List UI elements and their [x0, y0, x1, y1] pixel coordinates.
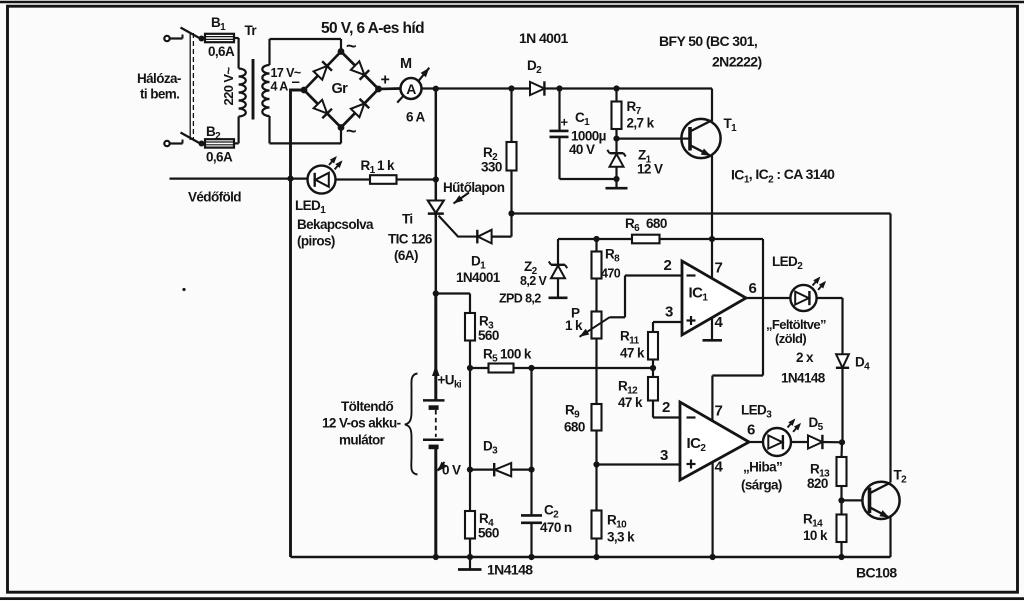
svg-text:(6A): (6A) — [394, 248, 418, 263]
svg-text:Ti: Ti — [402, 212, 413, 227]
svg-text:ti bem.: ti bem. — [140, 87, 179, 102]
svg-text:ZPD 8,2: ZPD 8,2 — [499, 292, 541, 306]
svg-text:470: 470 — [601, 267, 621, 281]
svg-text:3: 3 — [665, 304, 673, 321]
svg-text:2 x: 2 x — [796, 350, 814, 365]
svg-text:2: 2 — [662, 399, 670, 416]
svg-text:Tr: Tr — [245, 23, 258, 38]
svg-text:~: ~ — [346, 36, 356, 56]
svg-text:„Hiba”: „Hiba” — [743, 460, 782, 475]
svg-text:3,3 k: 3,3 k — [607, 530, 635, 545]
svg-text:Hálóza-: Hálóza- — [137, 71, 181, 86]
svg-text:6: 6 — [749, 280, 757, 297]
svg-text:820: 820 — [807, 476, 828, 491]
svg-text:Gr: Gr — [332, 81, 349, 97]
svg-text:–: – — [292, 74, 300, 91]
svg-text:560: 560 — [478, 328, 499, 343]
svg-text:1N4001: 1N4001 — [456, 270, 501, 285]
svg-text:2,7 k: 2,7 k — [627, 116, 655, 131]
svg-text:Védőföld: Védőföld — [188, 190, 241, 205]
svg-text:12 V: 12 V — [637, 162, 663, 177]
svg-text:470 n: 470 n — [540, 520, 572, 535]
svg-text:0 V: 0 V — [442, 463, 461, 478]
svg-text:(piros): (piros) — [297, 234, 335, 249]
svg-text:BFY 50 (BC 301,: BFY 50 (BC 301, — [659, 33, 757, 49]
svg-text:40 V: 40 V — [569, 142, 595, 157]
svg-text:8,2 V: 8,2 V — [520, 274, 547, 288]
svg-text:2N2222): 2N2222) — [712, 54, 762, 70]
svg-text:4: 4 — [715, 314, 724, 331]
svg-text:7: 7 — [715, 403, 723, 420]
svg-text:„Feltöltve”: „Feltöltve” — [766, 317, 826, 332]
svg-text:1N 4001: 1N 4001 — [519, 30, 569, 46]
svg-text:680: 680 — [646, 216, 667, 231]
svg-text:Hűtőlapon: Hűtőlapon — [443, 180, 505, 195]
svg-text:2: 2 — [664, 257, 672, 274]
svg-text:680: 680 — [564, 420, 585, 435]
svg-text:1 k: 1 k — [565, 318, 583, 333]
svg-text:(sárga): (sárga) — [741, 478, 782, 493]
svg-text:0,6A: 0,6A — [208, 44, 235, 59]
svg-text:Töltendő: Töltendő — [341, 399, 394, 414]
svg-text:BC108: BC108 — [856, 565, 897, 581]
svg-text:50 V, 6 A-es híd: 50 V, 6 A-es híd — [321, 20, 424, 37]
svg-text:6 A: 6 A — [406, 110, 426, 125]
svg-text:330: 330 — [481, 160, 502, 175]
svg-text:Bekapcsolva: Bekapcsolva — [297, 217, 374, 232]
svg-text:47 k: 47 k — [620, 346, 645, 361]
svg-text:(zöld): (zöld) — [775, 331, 806, 346]
svg-text:+: + — [561, 115, 569, 130]
svg-text:560: 560 — [478, 526, 499, 541]
svg-text:A: A — [406, 81, 416, 97]
svg-text:12 V-os akku-: 12 V-os akku- — [322, 416, 401, 431]
svg-text:1 k: 1 k — [377, 158, 395, 173]
svg-text:~: ~ — [346, 121, 356, 141]
svg-text:4: 4 — [715, 459, 724, 476]
svg-text:1N4148: 1N4148 — [781, 371, 826, 386]
svg-text:220 V~: 220 V~ — [221, 67, 236, 106]
svg-text:1N4148: 1N4148 — [487, 562, 533, 578]
svg-text:6: 6 — [747, 422, 755, 439]
svg-text:47 k: 47 k — [618, 395, 643, 410]
svg-text:TIC 126: TIC 126 — [388, 232, 433, 247]
svg-text:mulátor: mulátor — [339, 433, 386, 448]
svg-text:100 k: 100 k — [500, 347, 532, 362]
svg-text:7: 7 — [715, 260, 723, 277]
svg-text:M: M — [400, 56, 412, 72]
svg-text:4 A: 4 A — [271, 80, 289, 94]
svg-text:10 k: 10 k — [803, 528, 828, 543]
svg-text:+: + — [381, 72, 390, 89]
svg-text:3: 3 — [660, 447, 668, 464]
svg-text:0,6A: 0,6A — [206, 150, 233, 165]
